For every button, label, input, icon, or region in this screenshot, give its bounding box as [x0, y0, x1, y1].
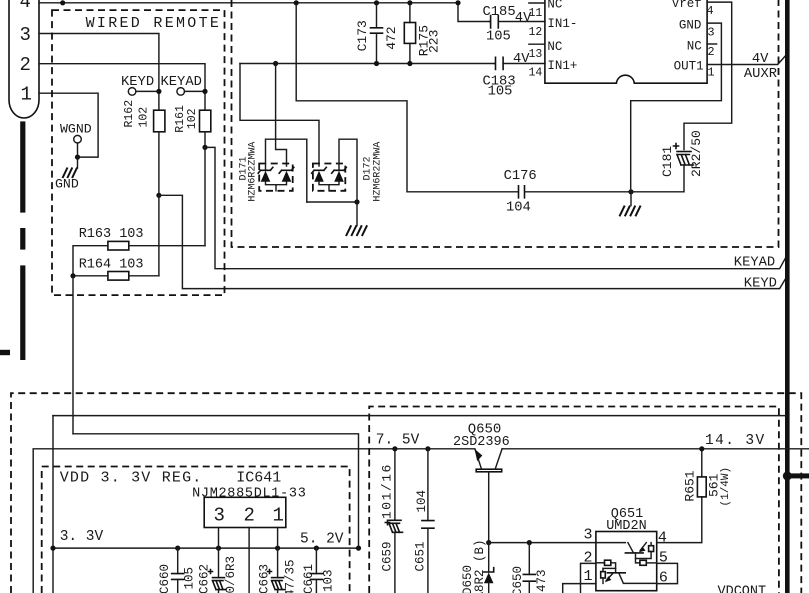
diode D171 HZM6R2ZMWA	[238, 139, 306, 202]
label KEYD at edge	[744, 277, 777, 292]
ground WGND	[55, 157, 79, 191]
svg-text:104: 104	[506, 201, 531, 216]
label KEYAD at edge	[734, 256, 775, 271]
svg-text:2R2/50: 2R2/50	[689, 130, 704, 177]
resistor R163 103	[73, 227, 205, 276]
capacitor C663 47/35 electrolytic	[258, 548, 298, 593]
pin 2 NC stub	[707, 44, 717, 59]
resistor R162 102	[123, 100, 165, 196]
terminal KEYD	[121, 75, 161, 95]
capacitor C650 473	[511, 543, 549, 593]
capacitor C173 472	[355, 3, 399, 66]
svg-text:3: 3	[214, 505, 225, 527]
svg-text:2SD2396: 2SD2396	[453, 435, 510, 450]
pin 3 wire GND	[631, 23, 722, 192]
terminal WGND	[60, 122, 92, 160]
svg-text:2: 2	[707, 45, 714, 59]
wire R164 node to 5.2V rail (line B)	[73, 434, 359, 548]
pin 4 wire Vref	[684, 2, 732, 149]
svg-text:102: 102	[186, 108, 199, 129]
svg-text:14: 14	[529, 67, 543, 80]
bus junction	[783, 471, 809, 480]
svg-text:C659: C659	[381, 541, 395, 571]
capacitor C183 105	[483, 52, 545, 99]
svg-text:HZM6R2ZMWA: HZM6R2ZMWA	[248, 142, 259, 202]
pin 12	[529, 26, 543, 39]
wire Q650 base row	[486, 540, 596, 545]
svg-text:1: 1	[273, 505, 284, 527]
resistor R164 103	[70, 258, 158, 281]
Q651 pin 3	[584, 526, 626, 543]
svg-text:472: 472	[384, 26, 399, 49]
wire pin1 to WGND	[39, 93, 98, 157]
svg-text:2: 2	[20, 54, 31, 76]
svg-text:GND: GND	[55, 177, 79, 192]
Q651 lower transistor unit	[596, 560, 657, 583]
svg-text:NJM2885DL1-33: NJM2885DL1-33	[192, 486, 306, 501]
terminal KEYAD	[161, 75, 208, 95]
transistor Q650 2SD2396	[453, 422, 510, 543]
diode D650 MA8R2 zener	[461, 539, 494, 593]
svg-text:C181: C181	[660, 146, 675, 177]
Q651 pin 4 wire to R651	[657, 497, 702, 547]
wire pin2 to KEYAD line	[39, 64, 205, 110]
capacitor C651 104	[414, 446, 434, 593]
svg-text:NC: NC	[547, 40, 562, 54]
svg-text:C173: C173	[355, 20, 370, 51]
capacitor C176 104	[504, 169, 634, 216]
svg-text:IC641: IC641	[236, 470, 281, 487]
connector J101 body	[9, 0, 39, 118]
pin 14	[529, 67, 543, 80]
svg-text:102: 102	[138, 107, 151, 128]
svg-text:OUT1: OUT1	[674, 59, 704, 73]
svg-text:R651: R651	[683, 470, 698, 501]
svg-text:C176: C176	[504, 169, 537, 184]
pin 11	[529, 3, 545, 20]
svg-text:KEYD: KEYD	[744, 277, 777, 292]
svg-text:103: 103	[322, 569, 336, 592]
svg-text:KEYD: KEYD	[121, 75, 154, 90]
capacitor C661 103	[302, 548, 336, 593]
svg-text:4: 4	[658, 529, 667, 546]
svg-text:13: 13	[529, 48, 543, 61]
wire KEYAD branch to edge	[202, 145, 787, 269]
svg-text:IN1-: IN1-	[547, 17, 577, 31]
wire pin4 branch to C176	[296, 3, 518, 192]
svg-text:47/35: 47/35	[284, 559, 298, 593]
capacitor C181 2R2/50 electrolytic	[631, 130, 704, 192]
svg-text:MA8R2 (B): MA8R2 (B)	[473, 539, 487, 593]
svg-text:3: 3	[20, 24, 31, 46]
svg-text:C663: C663	[258, 564, 272, 593]
svg-text:6: 6	[659, 570, 668, 587]
resistor R651 561 (1/4W)	[683, 449, 732, 507]
ground D-net	[307, 199, 367, 236]
Q651 pin 2 wire	[581, 549, 596, 593]
svg-text:105: 105	[486, 30, 511, 45]
svg-text:5. 2V: 5. 2V	[300, 532, 344, 548]
svg-text:VDD 3. 3V REG.: VDD 3. 3V REG.	[60, 470, 203, 487]
svg-text:R162: R162	[123, 100, 136, 128]
svg-text:4: 4	[20, 0, 31, 13]
regulator IC641 NJM2885DL1-33	[192, 470, 306, 593]
svg-text:1: 1	[21, 84, 32, 106]
ground C176	[620, 192, 641, 217]
capacitor C659 101/16 electrolytic	[380, 446, 403, 593]
wire pin4 net	[39, 0, 489, 21]
svg-text:11: 11	[529, 7, 543, 20]
svg-text:4V: 4V	[752, 52, 769, 67]
capacitor C185 105	[483, 5, 545, 45]
svg-text:4: 4	[706, 4, 713, 18]
svg-text:C651: C651	[414, 541, 428, 571]
dashed box WIRED REMOTE	[52, 10, 225, 295]
svg-text:10/6R3: 10/6R3	[224, 556, 238, 593]
dashed box power section	[11, 393, 801, 593]
svg-text:105: 105	[183, 567, 197, 590]
svg-text:C660: C660	[158, 564, 172, 593]
svg-text:3. 3V: 3. 3V	[60, 529, 104, 545]
wire R163/R164 down to lower section	[72, 276, 74, 434]
svg-text:5: 5	[659, 549, 668, 566]
op-amp IC U171	[545, 0, 707, 83]
diode D172 HZM6R2ZMWA	[312, 139, 384, 202]
wire 14.3V	[699, 433, 765, 452]
svg-text:3: 3	[707, 26, 714, 40]
capacitor C662 10/6R3 electrolytic	[198, 548, 239, 593]
label VDCONT	[718, 585, 767, 593]
svg-text:2: 2	[244, 505, 255, 527]
svg-text:2: 2	[584, 549, 593, 566]
dashed box VDD 3.3V REG	[42, 467, 350, 593]
svg-text:R163 103: R163 103	[79, 227, 144, 242]
wire 3.3V rail	[50, 529, 361, 551]
wire D-net row	[240, 61, 494, 166]
capacitor C660 105	[158, 548, 197, 593]
wire 7.5V rail	[33, 433, 809, 593]
svg-text:C661: C661	[302, 564, 316, 593]
resistor R175 223	[404, 3, 441, 66]
svg-text:3: 3	[584, 526, 593, 543]
pin 1 wire OUT1 to AUXR	[707, 52, 787, 82]
svg-text:VDCONT: VDCONT	[718, 585, 767, 593]
Q651 pin 1 wire	[563, 568, 596, 593]
transistor Q651 UMD2N	[596, 507, 657, 591]
Q651 upper transistor unit	[625, 543, 656, 566]
svg-text:1: 1	[707, 66, 714, 80]
svg-text:473: 473	[535, 569, 549, 592]
svg-text:101/16: 101/16	[380, 463, 395, 519]
Q651 pins 5-6 jumper	[657, 549, 678, 586]
svg-text:7. 5V: 7. 5V	[376, 433, 420, 449]
pin 13	[529, 44, 545, 61]
svg-text:223: 223	[427, 30, 442, 53]
svg-text:KEYAD: KEYAD	[734, 256, 775, 271]
svg-text:105: 105	[488, 84, 513, 99]
svg-text:NC: NC	[687, 40, 702, 54]
svg-text:1: 1	[584, 568, 593, 585]
svg-text:WGND: WGND	[60, 122, 92, 137]
svg-text:HZM6R2ZMWA: HZM6R2ZMWA	[372, 142, 383, 202]
bus bar right	[785, 0, 790, 593]
svg-text:14. 3V: 14. 3V	[705, 433, 766, 449]
wire 3.3V feed (line A)	[53, 416, 786, 593]
svg-text:WIRED REMOTE: WIRED REMOTE	[86, 15, 222, 32]
svg-text:C650: C650	[511, 566, 525, 593]
dashed box key circuit	[232, 0, 779, 247]
svg-text:IN1+: IN1+	[547, 59, 577, 73]
svg-text:C662: C662	[198, 564, 212, 593]
svg-text:(1/4W): (1/4W)	[720, 467, 732, 507]
svg-text:GND: GND	[679, 18, 702, 32]
wire pin3 to KEYD line	[39, 34, 159, 111]
svg-text:104: 104	[415, 490, 429, 513]
svg-text:NC: NC	[547, 0, 562, 11]
resistor R161 102	[174, 105, 211, 147]
svg-text:AUXR: AUXR	[744, 67, 777, 82]
wire KEYD branch to edge	[156, 193, 787, 289]
svg-text:12: 12	[529, 26, 543, 39]
svg-text:Vref: Vref	[672, 0, 702, 11]
cable shield thick bar	[0, 121, 25, 360]
dashed box regulator sub	[369, 407, 779, 593]
svg-text:R164 103: R164 103	[79, 258, 144, 273]
